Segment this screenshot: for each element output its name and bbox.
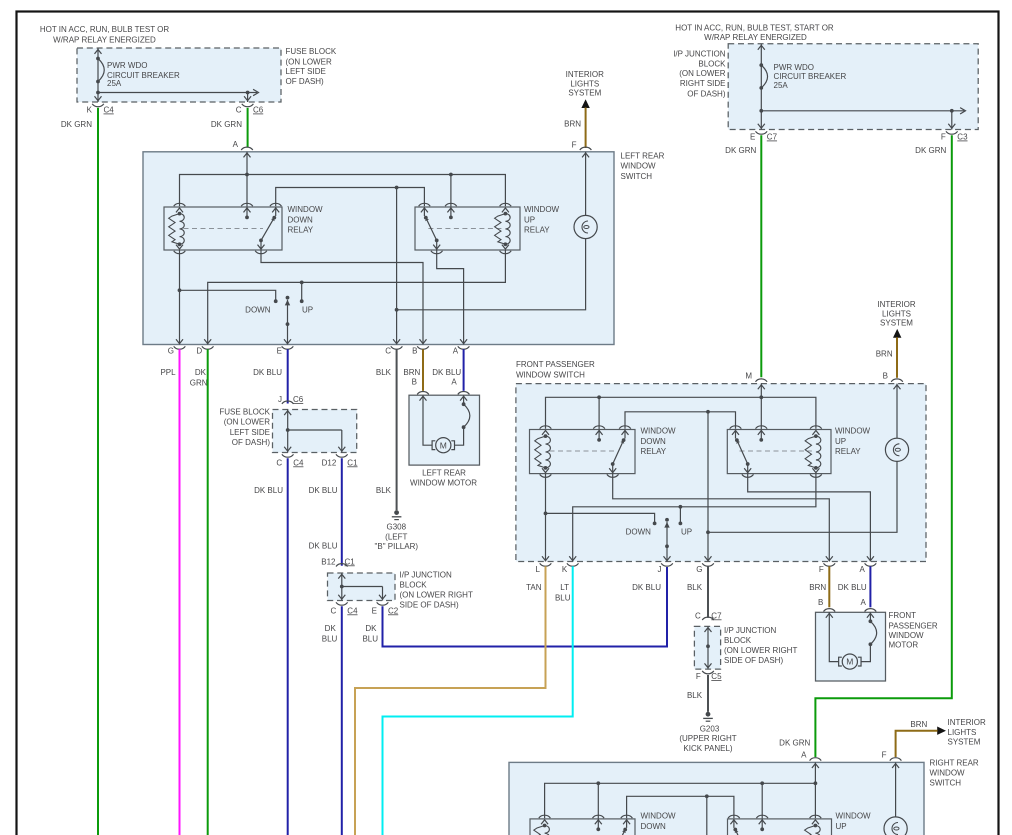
svg-text:F: F [696,672,701,681]
node F entry [580,147,592,150]
junction internal wires [341,573,343,601]
fuse block (dashed) top left [77,48,281,102]
pin G exit [176,339,183,343]
svg-text:K: K [87,106,93,115]
svg-text:WINDOW: WINDOW [288,205,324,214]
relay switch contact pin [621,815,633,818]
down contact feed FP [546,513,655,523]
svg-text:WINDOW: WINDOW [641,811,677,820]
connector F C3 [946,131,958,134]
svg-text:I/P JUNCTION: I/P JUNCTION [673,49,726,58]
lamp wire from B [896,384,898,439]
svg-text:E: E [372,606,377,615]
illumination lamp LR [574,215,597,238]
connector E C2 [377,602,389,605]
svg-text:C6: C6 [253,106,264,115]
svg-text:DK BLU: DK BLU [309,541,338,550]
I/P junction block (dashed) C7 C5 [694,626,720,669]
connector K C4 [92,104,104,107]
window down relay box [530,430,636,474]
pin A exit [460,339,467,343]
wire A to down relay control pin [246,152,248,218]
svg-text:FRONT PASSENGER: FRONT PASSENGER [516,360,595,369]
svg-text:UP: UP [524,215,535,224]
relay switch arm [614,830,625,835]
svg-text:LEFT SIDE: LEFT SIDE [286,67,326,76]
svg-text:LIGHTS: LIGHTS [882,309,911,318]
svg-text:DK BLU: DK BLU [309,486,338,495]
svg-text:C3: C3 [957,133,968,142]
relay switch contact pin [270,203,282,206]
svg-text:BRN: BRN [564,120,581,129]
svg-text:LIGHTS: LIGHTS [948,728,977,737]
svg-text:INTERIOR: INTERIOR [948,718,986,727]
relay switch arm [735,830,746,835]
svg-text:BLU: BLU [362,634,378,643]
coil feed bus RR [545,783,816,818]
down contact feed [180,290,276,301]
left rear window switch box [143,152,614,345]
svg-text:UP: UP [302,305,313,314]
svg-text:LEFT REAR: LEFT REAR [422,468,466,477]
pin L exit [542,556,549,560]
svg-text:SIDE OF DASH): SIDE OF DASH) [724,656,783,665]
relay commons bus FP [625,412,736,429]
svg-text:DK BLU: DK BLU [432,368,461,377]
relay control pin [593,815,605,818]
svg-text:DK: DK [325,624,337,633]
svg-text:HOT IN ACC, RUN, BULB TEST, ST: HOT IN ACC, RUN, BULB TEST, START OR [675,24,834,33]
svg-text:C: C [276,458,282,467]
svg-text:DK GRN: DK GRN [915,146,946,155]
svg-text:RELAY: RELAY [288,226,314,235]
svg-text:WINDOW: WINDOW [930,769,966,778]
coil feed bus [180,175,506,207]
svg-text:BRN: BRN [403,368,420,377]
svg-text:C: C [385,347,391,356]
relay centerline [184,228,264,230]
relay coil pin connector [810,426,822,429]
junction wire [707,626,709,669]
fuse block internal wires [287,410,289,453]
pin C exit [393,339,400,343]
motor M symbol [436,438,451,453]
svg-text:BLU: BLU [322,634,338,643]
svg-text:DOWN: DOWN [288,215,314,224]
svg-text:FRONT: FRONT [889,611,917,620]
svg-text:C5: C5 [711,672,722,681]
svg-text:L: L [536,565,541,574]
svg-text:BLOCK: BLOCK [400,580,428,589]
relay switch arm [261,218,274,241]
I/P junction block (dashed) top right [728,44,978,130]
window rocker switch arm [286,296,290,300]
svg-text:(ON LOWER RIGHT: (ON LOWER RIGHT [724,646,797,655]
wire BRN to interior lights RR [896,731,938,757]
svg-text:DOWN: DOWN [641,822,667,831]
svg-text:WINDOW: WINDOW [641,426,677,435]
svg-text:RELAY: RELAY [641,447,667,456]
left rear window motor [409,395,480,465]
svg-text:25A: 25A [774,81,789,90]
svg-text:LT: LT [560,583,569,592]
lamp wire from F RR [895,762,897,817]
motor wiring [423,395,432,445]
relay commons bus [276,188,425,207]
illumination lamp RR [884,817,907,835]
relay control pin [445,203,457,206]
I/P junction block (dashed) small left [328,573,396,601]
fuse block bus wire [98,92,257,94]
coil feed bus FP [546,397,816,429]
svg-text:W/RAP RELAY ENERGIZED: W/RAP RELAY ENERGIZED [53,36,156,45]
svg-text:BLOCK: BLOCK [698,60,726,69]
svg-text:B: B [412,378,417,387]
front passenger window switch box [516,384,926,562]
relay coil bottom pin [176,245,183,249]
wire BRN to interior lights [585,108,587,149]
svg-text:C7: C7 [767,133,778,142]
pin K wire to up coil [573,474,816,562]
svg-text:WINDOW: WINDOW [835,426,871,435]
svg-text:KICK PANEL): KICK PANEL) [683,744,733,753]
pin D wire to up coil [208,250,506,345]
svg-text:D: D [196,347,202,356]
svg-text:LIGHTS: LIGHTS [570,79,599,88]
svg-text:I/P JUNCTION: I/P JUNCTION [400,570,453,579]
svg-text:G308: G308 [387,523,407,532]
svg-text:WINDOW: WINDOW [621,162,657,171]
svg-text:OF DASH): OF DASH) [286,77,325,86]
relay switch arm [613,440,624,464]
svg-text:LEFT SIDE: LEFT SIDE [230,428,270,437]
svg-text:C1: C1 [347,458,358,467]
pin D exit [204,339,211,343]
svg-text:F: F [882,750,887,759]
ground G308 [394,510,399,515]
svg-text:F: F [572,141,577,150]
svg-text:DK BLU: DK BLU [253,368,282,377]
relay coil [546,436,551,468]
svg-text:DK GRN: DK GRN [61,120,92,129]
svg-text:A: A [860,565,866,574]
connector C C4 [282,454,294,457]
relay commons bus RR [627,796,734,818]
down relay output to pin F [613,474,830,562]
svg-text:DK BLU: DK BLU [632,583,661,592]
svg-text:WINDOW: WINDOW [524,205,560,214]
svg-text:BLK: BLK [376,368,392,377]
relay centerline [550,450,615,452]
svg-text:PASSENGER: PASSENGER [889,621,938,630]
motor connector pin B [824,609,836,612]
svg-text:BRN: BRN [809,583,826,592]
svg-text:WINDOW SWITCH: WINDOW SWITCH [516,371,585,380]
window up relay box [415,207,520,250]
connector E C7 [756,131,768,134]
svg-text:G: G [696,565,702,574]
motor connector pin B [417,392,429,395]
svg-text:WINDOW: WINDOW [836,811,872,820]
svg-text:SWITCH: SWITCH [930,779,962,788]
svg-text:LEFT REAR: LEFT REAR [621,151,665,160]
svg-text:(ON LOWER: (ON LOWER [679,69,725,78]
svg-text:OF DASH): OF DASH) [232,438,271,447]
svg-text:B12: B12 [321,557,336,566]
wire A to up relay coil RR [814,762,816,818]
svg-text:G203: G203 [700,724,720,733]
svg-text:F: F [819,565,824,574]
svg-text:C: C [331,606,337,615]
front passenger window motor [816,612,886,681]
svg-text:INTERIOR: INTERIOR [566,70,604,79]
svg-text:C: C [695,611,701,620]
ground G203 [706,712,711,717]
svg-text:GRN: GRN [190,378,208,387]
svg-text:TAN: TAN [526,583,542,592]
relay coil [816,436,821,468]
window down relay box [530,819,635,835]
relay switch contact pin [730,426,742,429]
motor wiring [829,612,838,661]
svg-text:F: F [941,133,946,142]
connector C C4 small [336,602,348,605]
svg-text:25A: 25A [107,79,122,88]
pin G exit [705,556,712,560]
fuse block (dashed) middle [273,410,357,453]
svg-text:MOTOR: MOTOR [889,640,919,649]
svg-text:(ON LOWER RIGHT: (ON LOWER RIGHT [400,590,473,599]
svg-text:C: C [236,106,242,115]
svg-text:I/P JUNCTION: I/P JUNCTION [724,626,777,635]
svg-text:J: J [278,395,282,404]
wire to up relay control pin RR [761,783,763,829]
pin E exit [284,339,291,343]
svg-text:PPL: PPL [160,368,176,377]
svg-text:DK GRN: DK GRN [725,146,756,155]
svg-text:(ON LOWER: (ON LOWER [286,57,332,66]
svg-text:RELAY: RELAY [524,226,550,235]
svg-text:DOWN: DOWN [641,437,667,446]
wire to pin G ground FP [707,412,709,562]
relay coil [815,826,820,835]
svg-text:C4: C4 [347,606,358,615]
svg-text:G: G [168,347,174,356]
svg-text:DOWN: DOWN [626,527,652,536]
relay switch contact pin [419,203,431,206]
relay centerline [428,228,501,230]
relay coil [505,214,510,245]
svg-text:RELAY: RELAY [835,447,861,456]
svg-text:BLU: BLU [555,593,571,602]
svg-text:E: E [750,133,755,142]
svg-text:WINDOW: WINDOW [889,631,925,640]
window up relay box [727,430,831,474]
svg-text:C4: C4 [104,106,115,115]
up contact feed [301,282,303,301]
svg-text:SYSTEM: SYSTEM [568,89,601,98]
wire to down relay control pin FP [598,397,600,440]
svg-text:BLK: BLK [687,691,703,700]
svg-text:K: K [562,565,568,574]
relay centerline [740,450,812,452]
relay coil pin connector [540,426,552,429]
svg-text:CIRCUIT BREAKER: CIRCUIT BREAKER [774,72,847,81]
svg-text:C2: C2 [388,606,399,615]
relay control pin [593,426,605,429]
relay coil [545,826,550,835]
svg-text:B: B [412,347,417,356]
circuit breaker PWR WDO 25A right [760,44,762,130]
relay coil pin connector [500,203,512,206]
svg-text:FUSE BLOCK: FUSE BLOCK [219,407,270,416]
I/P junction bus wire [761,110,964,112]
up contact [679,522,683,526]
svg-text:E: E [277,347,282,356]
pin J exit [664,556,671,560]
svg-text:D12: D12 [322,458,337,467]
svg-text:DOWN: DOWN [245,305,271,314]
svg-text:A: A [233,140,239,149]
relay switch contact pin [728,815,740,818]
up contact feed FP [679,507,681,523]
svg-text:A: A [860,598,866,607]
svg-text:M: M [745,372,752,381]
svg-text:BLOCK: BLOCK [724,636,752,645]
svg-text:A: A [451,378,457,387]
relay coil bottom pin [542,468,549,472]
relay switch contact pin [619,426,631,429]
right rear window switch box [509,762,924,835]
relay coil pin connector [539,815,551,818]
window up relay box [728,819,832,835]
svg-text:DK: DK [365,624,377,633]
svg-text:DK BLU: DK BLU [254,486,283,495]
svg-text:BLK: BLK [376,486,392,495]
pin G wire with down coil [179,250,181,345]
svg-text:W/RAP RELAY ENERGIZED: W/RAP RELAY ENERGIZED [704,33,807,42]
relay coil [180,214,185,245]
window rocker switch arm [665,518,669,522]
svg-text:J: J [658,565,662,574]
svg-text:DK GRN: DK GRN [779,739,810,748]
lamp to ground wire FP [708,461,897,532]
svg-text:UP: UP [835,437,846,446]
svg-text:SIDE OF DASH): SIDE OF DASH) [400,600,459,609]
pin A exit [867,556,874,560]
svg-text:C6: C6 [293,395,304,404]
wire M to up relay control pin [760,384,762,440]
svg-text:WINDOW MOTOR: WINDOW MOTOR [410,479,477,488]
svg-text:B: B [818,598,823,607]
wire to pin C ground [396,188,398,345]
connector D12 C1 [336,454,348,457]
svg-text:M: M [846,657,853,667]
svg-text:SYSTEM: SYSTEM [948,738,981,747]
svg-text:A: A [453,347,459,356]
relay control pin [756,815,768,818]
svg-text:RIGHT REAR: RIGHT REAR [930,759,979,768]
pin B exit [420,339,427,343]
relay coil pin connector [810,815,822,818]
wire BRN to interior lights FP [896,337,898,378]
svg-text:BLK: BLK [687,583,703,592]
svg-text:M: M [440,440,447,450]
relay control pin [756,426,768,429]
svg-text:C4: C4 [293,458,304,467]
svg-text:PWR WDO: PWR WDO [774,63,814,72]
relay switch arm [737,440,748,464]
svg-text:DK GRN: DK GRN [211,120,242,129]
wire to down relay control pin RR [597,783,599,829]
pin F exit [826,556,833,560]
svg-text:INTERIOR: INTERIOR [877,300,915,309]
lamp to ground wire [397,239,586,310]
svg-text:HOT IN ACC, RUN, BULB TEST OR: HOT IN ACC, RUN, BULB TEST OR [40,25,170,34]
svg-text:(ON LOWER: (ON LOWER [224,417,270,426]
svg-text:UP: UP [681,527,692,536]
motor connector pin A [458,392,470,395]
connector F C5 [702,671,714,674]
svg-text:SYSTEM: SYSTEM [880,319,913,328]
up relay output to pin A [748,474,871,562]
svg-text:RIGHT SIDE: RIGHT SIDE [680,79,726,88]
svg-text:PWR WDO: PWR WDO [107,61,147,70]
motor M symbol [842,654,857,669]
window down relay box [164,207,282,250]
pin L wire with down coil [545,474,547,562]
svg-text:FUSE BLOCK: FUSE BLOCK [286,47,337,56]
down relay output to pin B [261,250,423,345]
svg-text:DK BLU: DK BLU [838,583,867,592]
svg-text:UP: UP [836,822,847,831]
svg-text:BRN: BRN [876,349,893,358]
up relay output to pin A [437,250,464,345]
relay switch arm [426,218,437,241]
svg-text:"B" PILLAR): "B" PILLAR) [375,542,419,551]
svg-text:(LEFT: (LEFT [385,532,407,541]
pin K exit [569,556,576,560]
wire to pin G ground RR [706,796,708,835]
motor connector pin A [865,609,877,612]
svg-text:(UPPER RIGHT: (UPPER RIGHT [679,734,736,743]
down contact [274,299,278,303]
svg-text:DK: DK [195,368,207,377]
up contact [300,299,304,303]
connector C C6 [242,104,254,107]
svg-text:SWITCH: SWITCH [621,172,653,181]
svg-text:BRN: BRN [910,720,927,729]
svg-text:B: B [883,372,888,381]
circuit breaker PWR WDO 25A [97,48,99,102]
wire to up relay control pin [450,175,452,218]
svg-text:A: A [801,750,807,759]
relay coil pin connector [174,203,186,206]
down contact [653,522,657,526]
svg-text:OF DASH): OF DASH) [687,89,726,98]
illumination lamp FP [885,438,908,461]
lamp wire from F [585,152,587,216]
relay control pin [241,203,253,206]
